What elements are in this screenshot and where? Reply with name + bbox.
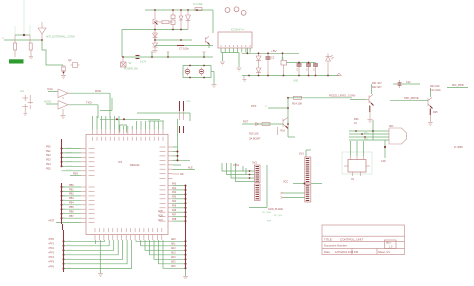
- svg-text:MIC-: MIC-: [364, 139, 369, 141]
- svg-text:TITLE:: TITLE:: [324, 237, 333, 241]
- svg-text:REV:: REV:: [386, 243, 392, 245]
- svg-text:PB2: PB2: [69, 193, 74, 196]
- svg-text:DTR: DTR: [251, 104, 256, 108]
- svg-text:PA1: PA1: [172, 187, 177, 190]
- svg-text:VCC: VCC: [283, 181, 288, 184]
- svg-text:ALE: ALE: [188, 166, 193, 169]
- svg-text:PB3: PB3: [69, 197, 74, 200]
- svg-text:PA7: PA7: [172, 213, 177, 216]
- svg-text:PE0: PE0: [46, 145, 51, 148]
- svg-text:PB4: PB4: [69, 202, 74, 205]
- svg-text:R16: R16: [281, 130, 286, 133]
- svg-text:PA5: PA5: [172, 205, 177, 208]
- svg-text:Document Number:: Document Number:: [324, 244, 348, 248]
- svg-text:POWER_SW: POWER_SW: [124, 69, 138, 71]
- svg-text:PE3: PE3: [46, 159, 51, 162]
- svg-text:IC1A: IC1A: [47, 87, 53, 91]
- svg-text:<PF6: <PF6: [48, 265, 55, 268]
- svg-text:Q4 BC847: Q4 BC847: [249, 138, 261, 141]
- svg-text:———: ———: [66, 169, 73, 171]
- svg-text:GND_PLANE: GND_PLANE: [268, 208, 283, 211]
- svg-text:AD6: AD6: [158, 215, 163, 218]
- svg-text:AD5: AD5: [158, 210, 163, 213]
- svg-text:PA0: PA0: [172, 182, 177, 185]
- svg-text:RXD: RXD: [95, 89, 101, 93]
- svg-text:R21 4K7: R21 4K7: [372, 82, 382, 85]
- svg-text:R26: R26: [354, 118, 359, 121]
- svg-text:SV1: SV1: [299, 152, 304, 156]
- svg-text:I2C_SCL: I2C_SCL: [274, 215, 283, 217]
- svg-text:AD5: AD5: [171, 261, 176, 264]
- svg-text:AD7: AD7: [158, 219, 163, 222]
- svg-text:I2C_SDA: I2C_SDA: [262, 211, 271, 214]
- svg-text:SV2: SV2: [252, 161, 257, 165]
- svg-text:———: ———: [66, 156, 73, 158]
- svg-text:<RST: <RST: [48, 219, 55, 222]
- svg-text:PB0: PB0: [69, 184, 74, 187]
- svg-text:MIC_PWR: MIC_PWR: [452, 84, 464, 87]
- svg-text:GND: GND: [293, 81, 298, 83]
- svg-text:R24 10K: R24 10K: [430, 85, 440, 88]
- svg-text:Sheet: 1/1: Sheet: 1/1: [378, 250, 390, 254]
- svg-text:PB6: PB6: [69, 211, 74, 214]
- svg-text:———: ———: [66, 160, 73, 162]
- svg-text:PB1: PB1: [69, 188, 74, 191]
- svg-text:R22 4K7: R22 4K7: [372, 86, 382, 89]
- svg-text:AD0: AD0: [171, 238, 176, 241]
- svg-text:F1 FUSE: F1 FUSE: [193, 4, 203, 6]
- svg-text:RD: RD: [180, 173, 184, 176]
- svg-text:AD2: AD2: [171, 247, 176, 250]
- svg-text:AD6: AD6: [171, 265, 176, 268]
- svg-text:———: ———: [66, 151, 73, 153]
- svg-text:<PF1: <PF1: [48, 243, 55, 246]
- svg-text:PA3: PA3: [172, 196, 177, 199]
- svg-text:PB5: PB5: [69, 206, 74, 209]
- svg-text:AD3: AD3: [171, 252, 176, 255]
- svg-text:C7 100u: C7 100u: [179, 47, 189, 51]
- svg-text:PE4: PE4: [46, 163, 51, 166]
- svg-text:C12: C12: [406, 81, 411, 84]
- svg-text:———: ———: [66, 165, 73, 167]
- svg-text:Q2: Q2: [68, 58, 72, 62]
- svg-text:AD1: AD1: [171, 243, 176, 246]
- svg-text:IC5 MAX7××: IC5 MAX7××: [231, 29, 245, 32]
- svg-text:<PF3: <PF3: [48, 252, 55, 255]
- svg-text:EXP: EXP: [267, 221, 272, 223]
- svg-text:PE5: PE5: [46, 168, 51, 171]
- svg-text:CONTROL_UNIT: CONTROL_UNIT: [340, 237, 363, 241]
- svg-text:PEN: PEN: [73, 172, 78, 175]
- svg-text:AUDIO: AUDIO: [44, 101, 51, 104]
- svg-text:SP1: SP1: [389, 125, 394, 128]
- svg-text:SPK_DRIVE: SPK_DRIVE: [404, 96, 419, 100]
- svg-text:Date:: Date:: [324, 250, 331, 254]
- svg-text:9-12V: 9-12V: [140, 62, 147, 64]
- svg-text:MEGA64: MEGA64: [130, 164, 140, 167]
- svg-text:AD4: AD4: [171, 256, 176, 259]
- svg-text:RST: RST: [243, 120, 249, 124]
- svg-text:C14 100n: C14 100n: [430, 89, 441, 92]
- svg-text:IC3: IC3: [118, 160, 123, 164]
- svg-text:R14 10K: R14 10K: [292, 102, 302, 106]
- svg-text:<PF0: <PF0: [48, 238, 55, 241]
- svg-text:PA2: PA2: [172, 191, 177, 194]
- svg-text:C18: C18: [381, 160, 386, 163]
- svg-text:1K: 1K: [354, 122, 357, 125]
- svg-text:TXD: TXD: [86, 101, 92, 105]
- svg-text:R15 10K: R15 10K: [249, 133, 259, 136]
- svg-text:+5V: +5V: [271, 49, 278, 53]
- svg-text:<PF4: <PF4: [48, 256, 55, 259]
- svg-text:LS1: LS1: [20, 91, 25, 93]
- svg-text:RS232_LEVEL_CONV: RS232_LEVEL_CONV: [329, 94, 356, 98]
- svg-text:PE2: PE2: [46, 154, 51, 157]
- svg-text:C2: C2: [271, 56, 275, 60]
- svg-text:IC 4066: IC 4066: [454, 146, 463, 149]
- svg-text:PA8: PA8: [172, 218, 177, 221]
- svg-text:———: ———: [66, 147, 73, 149]
- svg-text:MIC+: MIC+: [364, 133, 370, 135]
- svg-text:R25: R25: [433, 111, 438, 114]
- svg-text:PE1: PE1: [46, 150, 51, 153]
- svg-text:PA4: PA4: [172, 200, 177, 203]
- svg-text:PA6: PA6: [172, 209, 177, 212]
- svg-text:<PF5: <PF5: [48, 261, 55, 264]
- svg-text:JTAG: JTAG: [233, 164, 239, 167]
- svg-text:<PF2: <PF2: [48, 247, 55, 250]
- svg-text:ANT_EXTERNAL_CONN: ANT_EXTERNAL_CONN: [46, 36, 75, 39]
- svg-text:PB7: PB7: [69, 215, 74, 218]
- svg-text:1/07/2010 9:08 PM: 1/07/2010 9:08 PM: [335, 250, 359, 254]
